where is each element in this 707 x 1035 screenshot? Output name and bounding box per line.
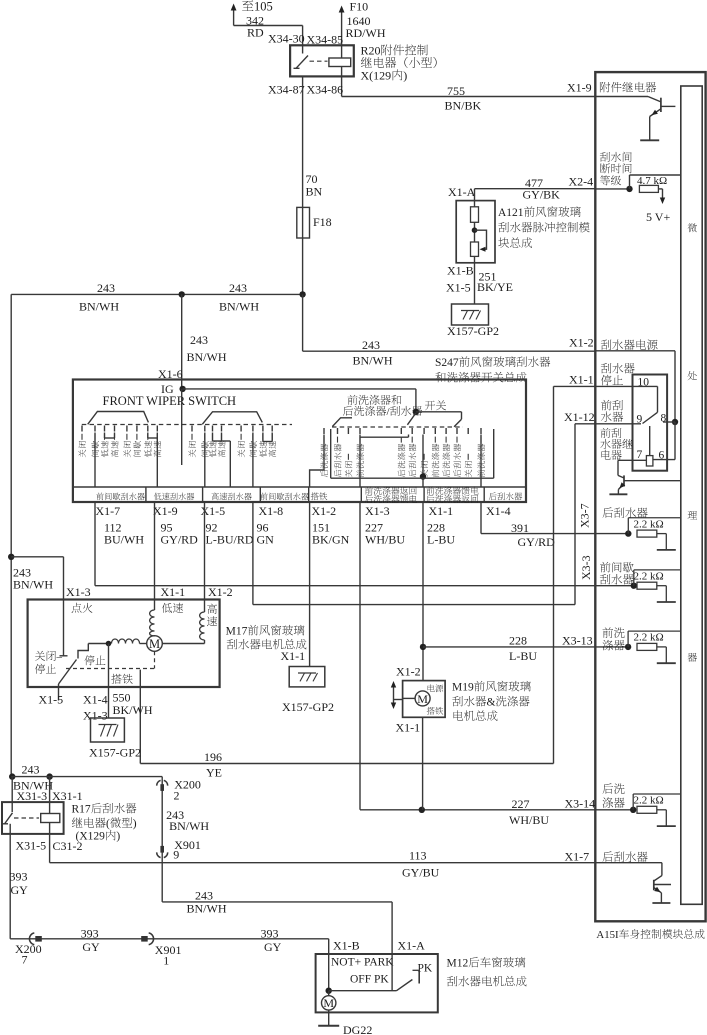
svg-text:GY: GY [264,940,282,954]
svg-text:X3-13: X3-13 [562,634,593,648]
svg-text:X3-14: X3-14 [565,797,596,811]
svg-text:755: 755 [447,84,465,98]
svg-text:BN/WH: BN/WH [187,350,227,364]
svg-text:X1-2: X1-2 [208,585,233,599]
svg-text:X1-2: X1-2 [312,504,337,518]
svg-text:(: ( [106,818,110,830]
svg-text:BN/WH: BN/WH [79,300,119,314]
svg-text:NOT+ PARK: NOT+ PARK [331,957,394,969]
svg-text:BN/WH: BN/WH [13,578,53,592]
svg-text:X1-9: X1-9 [567,81,592,95]
svg-text:X34-86: X34-86 [307,83,344,97]
svg-text:X1-1: X1-1 [396,721,421,735]
svg-text:243: 243 [362,338,380,352]
svg-text:243: 243 [229,281,247,295]
svg-text:L-BU: L-BU [509,649,537,663]
svg-text:X1-2: X1-2 [569,336,594,350]
svg-text:9: 9 [637,414,643,426]
svg-text:DG22: DG22 [343,1023,372,1035]
svg-text:2.2 kΩ: 2.2 kΩ [634,795,664,807]
svg-text:BN: BN [306,185,323,199]
svg-text:X1-5: X1-5 [39,693,64,707]
svg-text:R20: R20 [361,44,381,58]
svg-text:X1-4: X1-4 [83,693,108,707]
svg-text:X34-30: X34-30 [268,32,305,46]
svg-text:X1-12: X1-12 [564,410,595,424]
svg-text:8: 8 [661,413,667,425]
svg-text:X1-B: X1-B [333,939,360,953]
svg-text:M19: M19 [452,682,474,694]
svg-text:X3-3: X3-3 [579,555,593,580]
svg-text:): ) [403,69,407,83]
svg-text:X1-1: X1-1 [161,585,186,599]
svg-text:10: 10 [638,377,650,389]
svg-text:X157-GP2: X157-GP2 [447,324,499,338]
svg-text:X34-87: X34-87 [268,83,305,97]
svg-text:X1-7: X1-7 [96,504,121,518]
svg-text:GY/BK: GY/BK [523,188,561,202]
svg-text:7: 7 [22,953,28,967]
svg-text:X1-2: X1-2 [396,665,421,679]
svg-text:X200: X200 [15,942,42,956]
svg-text:): ) [116,831,120,843]
svg-text:BN/WH: BN/WH [187,902,227,916]
svg-text:A121: A121 [498,207,524,219]
svg-text:105: 105 [254,0,273,14]
svg-text:X157-GP2: X157-GP2 [89,746,141,760]
svg-text:2: 2 [174,789,180,803]
svg-text:X1-B: X1-B [447,264,474,278]
svg-text:X3-7: X3-7 [578,503,592,528]
svg-text:393: 393 [261,927,279,941]
svg-text:5 V+: 5 V+ [646,210,670,224]
svg-text:FRONT WIPER SWITCH: FRONT WIPER SWITCH [103,394,237,408]
svg-text:2.2 kΩ: 2.2 kΩ [634,570,664,582]
svg-text:243: 243 [22,763,40,777]
svg-text:BK/GN: BK/GN [312,533,350,547]
svg-text:196: 196 [204,750,222,764]
svg-text:BN/WH: BN/WH [219,300,259,314]
svg-text:M: M [149,637,160,651]
svg-text:X31-5: X31-5 [16,839,47,853]
svg-text:393: 393 [81,927,99,941]
svg-text:M17: M17 [226,626,248,638]
svg-text:BK/YE: BK/YE [477,280,513,294]
svg-text:7: 7 [637,449,643,461]
svg-text:GN: GN [257,533,275,547]
svg-text:X1-7: X1-7 [565,850,590,864]
svg-text:&: & [487,697,496,709]
svg-text:BU/WH: BU/WH [104,533,144,547]
svg-text:X1-5: X1-5 [446,281,471,295]
svg-text:X(129: X(129 [361,69,392,83]
svg-text:S247: S247 [435,357,459,369]
svg-text:YE: YE [206,766,222,780]
svg-text:GY: GY [82,940,100,954]
svg-text:393: 393 [10,870,28,884]
svg-text:GY/RD: GY/RD [518,535,556,549]
svg-text:GY/BU: GY/BU [402,866,440,880]
svg-text:WH/BU: WH/BU [509,813,549,827]
svg-text:BN/WH: BN/WH [353,354,393,368]
svg-text:GY: GY [11,883,29,897]
svg-text:BK/WH: BK/WH [113,703,153,717]
svg-text:243: 243 [97,281,115,295]
svg-text:L-BU/RD: L-BU/RD [206,533,254,547]
svg-text:X1-1: X1-1 [429,504,454,518]
svg-text:2.2 kΩ: 2.2 kΩ [634,518,664,530]
svg-text:X2-4: X2-4 [569,175,594,189]
svg-text:113: 113 [409,849,427,863]
svg-text:2.2 kΩ: 2.2 kΩ [634,632,664,644]
svg-text:1: 1 [163,954,169,968]
svg-text:X31-1: X31-1 [52,789,83,803]
svg-text:X1-8: X1-8 [259,504,284,518]
svg-text:X1-9: X1-9 [153,504,178,518]
svg-text:X1-3: X1-3 [83,709,108,723]
svg-text:M: M [323,996,334,1010]
svg-text:M: M [417,692,428,706]
svg-text:M12: M12 [447,958,469,970]
svg-text:L-BU: L-BU [427,533,455,547]
svg-text:F10: F10 [350,0,369,14]
svg-text:A15I: A15I [596,929,619,941]
svg-text:228: 228 [509,634,527,648]
svg-text:): ) [133,818,137,830]
svg-text:X1-A: X1-A [398,939,426,953]
svg-text:BN/WH: BN/WH [169,819,209,833]
svg-text:–: – [56,651,63,663]
svg-text:X1-3: X1-3 [365,504,390,518]
svg-text:WH/BU: WH/BU [365,533,405,547]
svg-text:R17: R17 [72,804,91,816]
svg-text:X1-A: X1-A [448,185,476,199]
svg-text:RD/WH: RD/WH [346,26,386,40]
svg-text:RD: RD [247,26,264,40]
svg-text:X1-4: X1-4 [486,504,511,518]
svg-text:227: 227 [512,797,530,811]
svg-text:243: 243 [195,889,213,903]
svg-text:GY/RD: GY/RD [161,533,199,547]
svg-text:BN/BK: BN/BK [445,99,482,113]
svg-text:X157-GP2: X157-GP2 [282,700,334,714]
svg-text:X31-3: X31-3 [17,789,48,803]
svg-text:OFF PK: OFF PK [350,974,389,986]
svg-text:X1-1: X1-1 [569,373,594,387]
svg-text:X1-1: X1-1 [281,649,306,663]
svg-text:X1-3: X1-3 [66,585,91,599]
svg-text:F18: F18 [313,215,332,229]
svg-text:(X129: (X129 [76,831,106,843]
svg-text:243: 243 [190,333,208,347]
svg-text:9: 9 [173,848,179,862]
